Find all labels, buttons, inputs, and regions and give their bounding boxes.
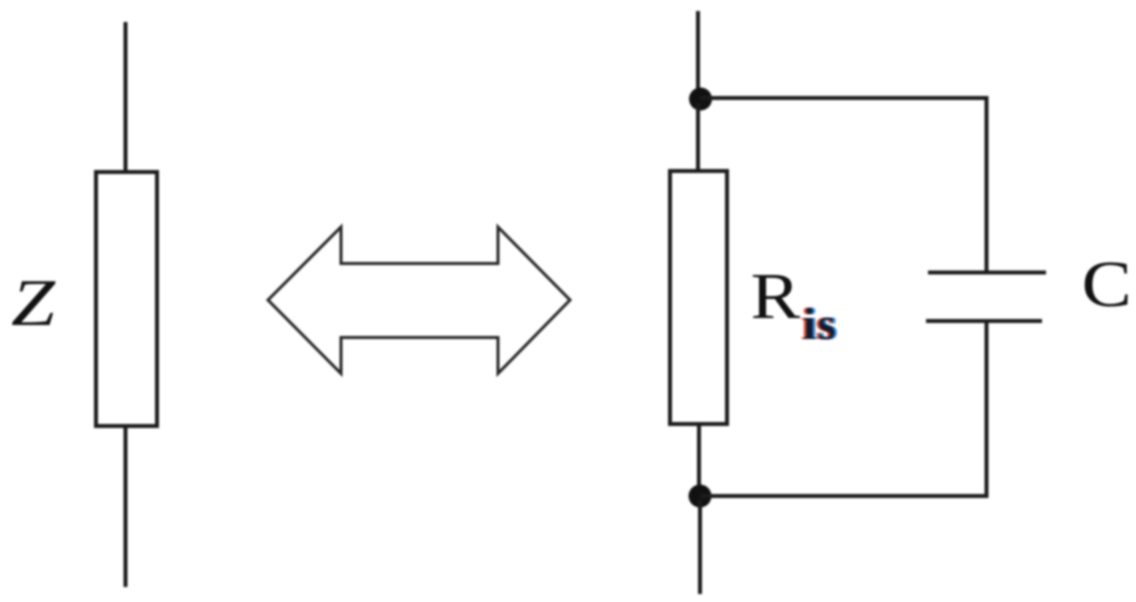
svg-text:is: is <box>803 298 838 349</box>
svg-text:C: C <box>1082 248 1132 321</box>
svg-text:Z: Z <box>11 266 56 340</box>
svg-text:R: R <box>751 260 801 333</box>
